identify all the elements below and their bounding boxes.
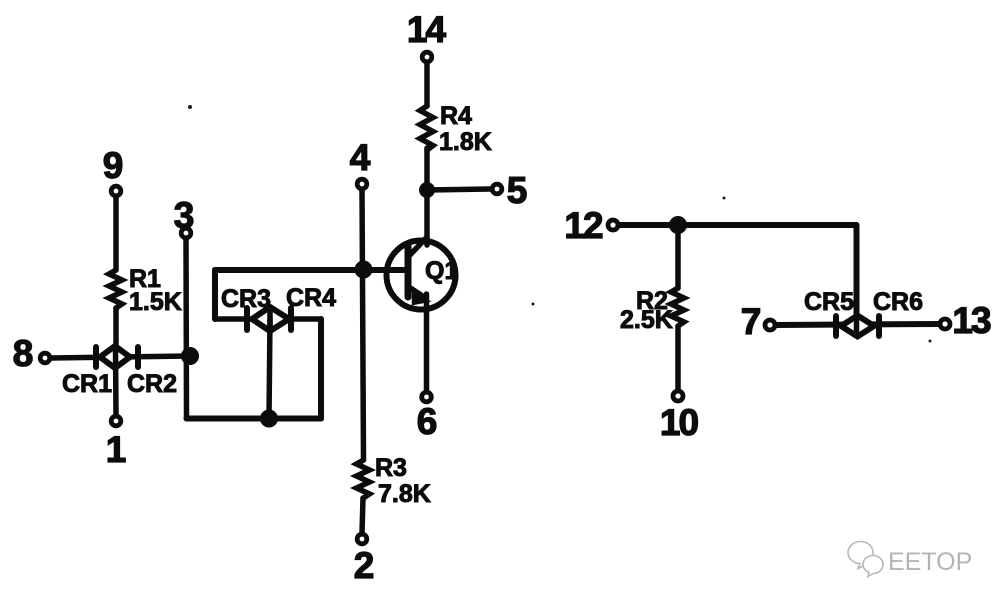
svg-text:EETOP: EETOP [888,548,972,576]
svg-text:14: 14 [407,9,447,50]
svg-text:12: 12 [564,205,603,246]
svg-text:3: 3 [174,195,195,236]
svg-text:9: 9 [103,145,124,186]
svg-text:7: 7 [741,301,762,342]
svg-text:2: 2 [354,545,375,586]
svg-text:CR5: CR5 [804,288,854,316]
svg-text:7.8K: 7.8K [378,480,431,508]
svg-text:CR2: CR2 [127,370,177,398]
svg-text:10: 10 [660,402,699,443]
svg-text:R3: R3 [375,454,407,482]
svg-text:4: 4 [350,137,371,178]
svg-text:1.8K: 1.8K [439,128,492,156]
svg-text:CR4: CR4 [286,284,336,312]
svg-text:Q1: Q1 [425,257,458,285]
svg-text:CR3: CR3 [221,285,271,313]
svg-text:13: 13 [952,300,991,341]
svg-text:1: 1 [106,429,127,470]
svg-text:CR6: CR6 [873,288,923,316]
svg-text:6: 6 [417,401,438,442]
svg-text:R4: R4 [440,102,472,130]
svg-text:1.5K: 1.5K [129,288,182,316]
svg-text:5: 5 [507,170,528,211]
svg-text:CR1: CR1 [62,370,112,398]
svg-text:2.5K: 2.5K [620,306,673,334]
svg-text:8: 8 [13,333,34,374]
